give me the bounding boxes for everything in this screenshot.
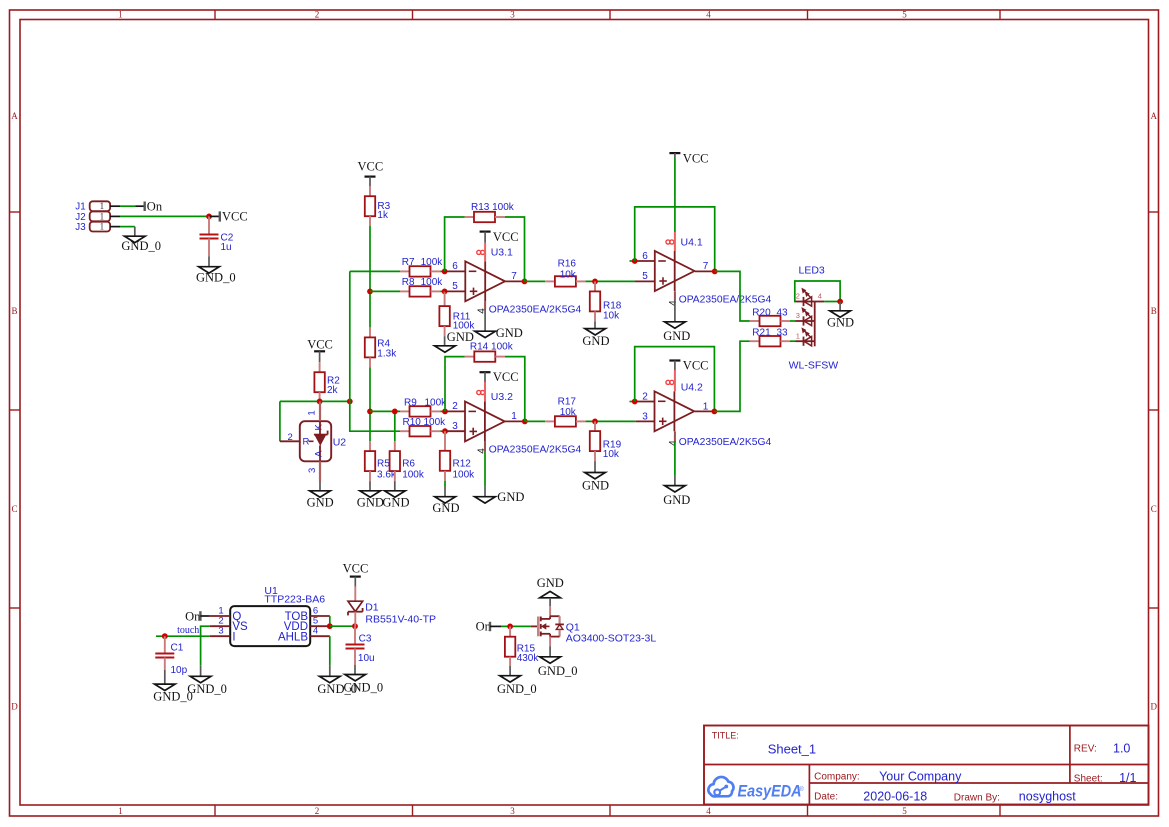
ground GND (R19) (582, 461, 609, 493)
svg-text:C: C (11, 504, 17, 514)
op-amp U4.2 (630, 380, 772, 447)
power flag VCC (U3.2) (480, 370, 519, 402)
svg-text:GND_0: GND_0 (497, 682, 537, 696)
wire R10-U3.2 (440, 430, 445, 432)
LED array LED3 (789, 265, 839, 372)
svg-text:2020-06-18: 2020-06-18 (863, 790, 927, 804)
svg-text:U4.2: U4.2 (681, 382, 703, 394)
svg-text:1u: 1u (221, 242, 232, 253)
resistor R5 (365, 441, 397, 481)
svg-text:10k: 10k (603, 311, 620, 322)
svg-text:10k: 10k (560, 269, 577, 280)
wire R20-LED3 (790, 320, 796, 322)
wire R16-U4.1 (586, 280, 635, 282)
svg-text:U4.1: U4.1 (681, 236, 703, 248)
resistor R21 (750, 328, 791, 347)
power flag VCC (U4.2) (669, 359, 708, 392)
resistor R7 (400, 257, 443, 276)
svg-text:GND: GND (497, 490, 524, 504)
svg-text:1k: 1k (377, 210, 389, 221)
junction VDD node (327, 623, 333, 629)
power flag VCC (D1) (343, 562, 369, 587)
svg-text:A: A (314, 450, 325, 457)
wire R21-LED3 (790, 340, 796, 342)
resistor R2 (314, 362, 340, 401)
svg-text:2: 2 (288, 432, 293, 443)
power flag VCC (R3) (358, 159, 384, 186)
wire J1-On (120, 205, 135, 207)
svg-text:Sheet_1: Sheet_1 (768, 742, 816, 757)
svg-text:Date:: Date: (814, 792, 838, 803)
junction R8 tap (367, 289, 373, 295)
svg-text:OPA2350EA/2K5G4: OPA2350EA/2K5G4 (489, 445, 582, 456)
svg-text:OPA2350EA/2K5G4: OPA2350EA/2K5G4 (489, 305, 582, 316)
svg-text:B: B (1151, 306, 1157, 316)
svg-text:C1: C1 (171, 642, 184, 653)
resistor R12 (440, 431, 475, 481)
capacitor C2 (200, 216, 234, 256)
ground GND (R5) (357, 481, 384, 509)
svg-text:100k: 100k (453, 470, 476, 481)
diode D1 (348, 587, 436, 627)
svg-text:VCC: VCC (493, 230, 519, 244)
net flag On (J1) (135, 200, 162, 214)
svg-text:touch: touch (177, 625, 199, 636)
wire feedback U3.1 (445, 217, 465, 271)
svg-text:GND: GND (432, 501, 459, 515)
svg-text:2k: 2k (327, 385, 339, 396)
wire R4-R5 (369, 367, 371, 441)
resistor R15 (505, 626, 539, 666)
svg-text:R20: R20 (752, 307, 771, 318)
svg-text:®: ® (799, 785, 804, 793)
svg-text:GND_0: GND_0 (344, 681, 384, 695)
svg-text:1: 1 (796, 331, 800, 340)
ground GND_0 (R15) (497, 666, 537, 696)
junction U3.1 output (522, 279, 528, 285)
svg-text:1: 1 (100, 222, 105, 232)
svg-text:GND: GND (663, 329, 690, 343)
ground GND (U4.2 pin4) (663, 431, 690, 506)
svg-text:AHLB: AHLB (278, 631, 308, 643)
ground GND_0 (U1 VS) (187, 665, 227, 696)
wire feedback U4.1 (635, 207, 715, 272)
svg-text:2: 2 (796, 292, 800, 301)
svg-text:VCC: VCC (493, 370, 519, 384)
wire to U2 pin2 (279, 401, 281, 441)
svg-text:3: 3 (796, 311, 800, 320)
junction R9 tap (367, 409, 373, 415)
svg-text:10k: 10k (603, 449, 620, 460)
ground GND (R12) (432, 481, 459, 515)
ground GND (U2) (307, 482, 334, 510)
resistor R16 (545, 259, 585, 287)
photo-IC U2 (280, 401, 346, 481)
resistor R20 (750, 307, 791, 326)
svg-text:Q1: Q1 (566, 621, 580, 633)
svg-text:VCC: VCC (683, 359, 709, 373)
power flag VCC (R2) (307, 337, 333, 362)
junction U3.1 pin6 (442, 269, 448, 275)
ground GND (U3.1 pin4) (475, 301, 523, 340)
svg-text:EasyEDA: EasyEDA (738, 781, 802, 800)
svg-text:2: 2 (452, 401, 458, 412)
junction ladder node (347, 399, 353, 405)
wire J2-VCC (120, 215, 209, 217)
svg-text:100k: 100k (402, 470, 425, 481)
EasyEDA logo (708, 777, 804, 800)
capacitor C1 (155, 636, 187, 676)
junction U3.2 output (522, 419, 528, 425)
junction R19 node (592, 419, 598, 425)
junction LED3 common (837, 299, 843, 305)
wire VDD to D1 (330, 625, 355, 627)
svg-text:5: 5 (452, 281, 458, 292)
svg-text:U2: U2 (333, 437, 347, 449)
svg-text:D1: D1 (365, 602, 379, 614)
wire VS to GND_0 (201, 626, 210, 665)
svg-text:Company:: Company: (814, 771, 860, 782)
svg-text:B: B (11, 306, 17, 316)
svg-text:1: 1 (118, 9, 123, 19)
svg-text:6: 6 (642, 251, 648, 262)
wire J3-GND_0 (120, 226, 135, 228)
resistor R11 (439, 291, 475, 336)
svg-text:GND: GND (827, 316, 854, 330)
wire node R2-bottom (280, 400, 350, 402)
svg-text:4: 4 (706, 806, 711, 816)
svg-text:R14 100k: R14 100k (470, 342, 514, 353)
svg-text:R9: R9 (404, 397, 417, 408)
svg-text:3: 3 (452, 421, 458, 432)
svg-text:R7: R7 (402, 257, 415, 268)
wire U3.2 out to R17 (525, 420, 545, 422)
wire touch net (156, 635, 210, 637)
svg-text:OPA2350EA/2K5G4: OPA2350EA/2K5G4 (679, 294, 772, 305)
ground GND_0 (C1) (153, 670, 193, 704)
resistor R13 (465, 202, 515, 222)
wire U3.1 out to R16 (525, 280, 546, 282)
resistor R8 (400, 277, 443, 296)
junction U4.2 output (712, 409, 718, 415)
wire feedback U3.2 right (505, 357, 525, 422)
svg-text:1/1: 1/1 (1119, 771, 1136, 785)
ground GND (R11) (435, 330, 474, 352)
svg-text:3: 3 (510, 9, 515, 19)
wire R8-U3.1 (440, 290, 444, 292)
wire U4.2 out to R21 (714, 341, 749, 411)
svg-text:VCC: VCC (683, 151, 709, 165)
op-amp U3.2 (445, 390, 582, 455)
junction U4.1 output (712, 269, 718, 275)
svg-text:LED3: LED3 (799, 265, 825, 277)
power flag VCC (U4.1) (669, 151, 708, 251)
svg-text:4: 4 (668, 440, 679, 446)
svg-text:WL-SFSW: WL-SFSW (789, 360, 839, 372)
svg-text:Sheet:: Sheet: (1074, 773, 1103, 784)
op-amp U3.1 (445, 247, 582, 316)
svg-text:R16: R16 (558, 259, 577, 270)
resistor R3 (365, 186, 391, 226)
svg-text:GND_0: GND_0 (196, 270, 236, 284)
svg-text:33: 33 (777, 328, 789, 339)
svg-text:K: K (314, 423, 325, 430)
svg-text:3: 3 (218, 626, 223, 637)
ground GND_0 (C3) (344, 665, 384, 695)
svg-text:1.3k: 1.3k (377, 348, 397, 359)
svg-text:3: 3 (642, 411, 648, 422)
svg-text:D: D (11, 702, 18, 712)
svg-text:2: 2 (315, 806, 320, 816)
svg-text:GND_0: GND_0 (538, 664, 578, 678)
net flag On (U1) (185, 609, 210, 623)
wire R7 left (350, 270, 400, 272)
svg-text:R13 100k: R13 100k (471, 202, 515, 213)
svg-text:D: D (1151, 702, 1158, 712)
net flag On (Q1) (476, 620, 501, 634)
ground GND_0 (J3) (121, 227, 161, 253)
wire R17-U4.2 (586, 420, 636, 422)
svg-text:4: 4 (818, 292, 822, 301)
junction R15 node (507, 624, 513, 630)
svg-text:100k: 100k (425, 397, 448, 408)
svg-text:4: 4 (706, 9, 711, 19)
svg-text:5: 5 (902, 806, 907, 816)
svg-text:On: On (147, 200, 163, 214)
transistor Q1 (531, 606, 657, 646)
svg-text:2: 2 (642, 391, 648, 402)
svg-text:VCC: VCC (343, 562, 369, 576)
wire AHLB to GND_0 (329, 636, 331, 665)
junction C1 node (162, 633, 168, 639)
junction R6 tap (392, 409, 398, 415)
ground GND (U4.1 pin4) (663, 291, 690, 343)
connector J2 (75, 211, 120, 223)
svg-text:GND_0: GND_0 (121, 239, 161, 253)
junction U4.1 pin6 (632, 258, 638, 264)
svg-text:R6: R6 (402, 458, 415, 469)
svg-text:R12: R12 (453, 458, 472, 469)
svg-text:VCC: VCC (358, 159, 384, 173)
resistor R18 (590, 281, 622, 321)
wire ladder vertical (350, 271, 400, 431)
connector J3 (75, 222, 120, 234)
svg-text:U3.2: U3.2 (491, 391, 513, 403)
svg-text:4: 4 (668, 300, 679, 306)
svg-text:Your Company: Your Company (879, 769, 962, 783)
title block (704, 726, 1149, 805)
svg-text:OPA2350EA/2K5G4: OPA2350EA/2K5G4 (679, 437, 772, 448)
junction R18 node (592, 279, 598, 285)
svg-text:VCC: VCC (307, 337, 333, 351)
wire LED3 pin2 loop (795, 281, 840, 302)
wire U4.1 out to R20 (715, 271, 750, 321)
svg-text:3: 3 (510, 806, 515, 816)
svg-text:A: A (1151, 111, 1158, 121)
ground GND_0 (C2) (196, 256, 236, 284)
svg-text:GND_0: GND_0 (187, 682, 227, 696)
svg-text:nosyghost: nosyghost (1019, 790, 1077, 804)
svg-text:10p: 10p (171, 665, 188, 676)
svg-text:6: 6 (452, 261, 458, 272)
ground GND (R6) (382, 481, 409, 509)
svg-text:1: 1 (100, 211, 105, 221)
junction VCC node (206, 214, 212, 220)
svg-text:GND: GND (382, 495, 409, 509)
wire feedback U3.1 right (505, 217, 525, 281)
svg-text:GND: GND (582, 479, 609, 493)
svg-text:Drawn By:: Drawn By: (954, 792, 1000, 803)
ground GND (R18) (582, 321, 609, 348)
svg-text:430k: 430k (517, 653, 540, 664)
svg-text:R5: R5 (377, 458, 390, 469)
junction U4.2 pin2 (632, 399, 638, 405)
junction U3.2 pin3 (442, 428, 448, 434)
wire On-Q1 gate (501, 625, 531, 627)
svg-text:U3.1: U3.1 (491, 247, 513, 259)
svg-text:GND: GND (537, 576, 564, 590)
svg-text:TTP223-BA6: TTP223-BA6 (264, 594, 325, 606)
svg-text:C3: C3 (359, 633, 372, 644)
svg-text:5: 5 (902, 9, 907, 19)
svg-text:GND: GND (496, 326, 523, 340)
svg-text:R8: R8 (402, 277, 415, 288)
svg-text:RB551V-40-TP: RB551V-40-TP (365, 613, 436, 625)
svg-text:2: 2 (315, 9, 320, 19)
IC U1 TTP223-BA6 (210, 585, 330, 646)
svg-text:GND: GND (357, 495, 384, 509)
svg-text:1: 1 (118, 806, 123, 816)
svg-text:AO3400-SOT23-3L: AO3400-SOT23-3L (566, 633, 657, 645)
svg-text:1: 1 (307, 410, 318, 415)
wire TOB down (329, 616, 331, 626)
junction D1-C3 node (352, 623, 358, 629)
svg-text:REV:: REV: (1074, 744, 1097, 755)
net flag VCC (J2) (209, 209, 248, 223)
junction R2 node (317, 399, 323, 405)
wire feedback U4.2 (635, 347, 715, 412)
resistor R4 (365, 327, 397, 367)
ground GND_0 (Q1 source) (538, 646, 578, 678)
svg-text:On: On (185, 609, 201, 623)
svg-text:R: R (303, 437, 310, 448)
wire LED3 pin4 (824, 301, 840, 303)
svg-text:VCC: VCC (222, 209, 248, 223)
svg-text:4: 4 (313, 626, 318, 637)
svg-text:10k: 10k (560, 407, 577, 418)
wire R9 tap to R6 (394, 411, 396, 441)
ground GND (Q1 drain) (537, 576, 564, 606)
resistor R17 (545, 397, 585, 427)
svg-text:GND: GND (663, 493, 690, 507)
svg-text:43: 43 (777, 307, 789, 318)
svg-text:A: A (11, 111, 18, 121)
svg-text:C: C (1151, 504, 1157, 514)
wire R7-U3.1 (440, 270, 444, 272)
ground GND (U3.2 pin4) (475, 441, 525, 504)
svg-text:TITLE:: TITLE: (712, 731, 739, 741)
svg-text:1.0: 1.0 (1113, 742, 1130, 756)
svg-text:GND: GND (582, 334, 609, 348)
svg-text:3: 3 (307, 468, 318, 473)
wire R9-U3.2 (440, 410, 445, 412)
svg-text:10u: 10u (358, 653, 375, 664)
svg-text:R21: R21 (752, 328, 771, 339)
resistor R10 (400, 417, 446, 437)
svg-text:GND: GND (307, 496, 334, 510)
capacitor C3 (346, 626, 375, 665)
svg-text:GND_0: GND_0 (153, 690, 193, 704)
ground GND_0 (AHLB) (317, 665, 357, 696)
svg-text:100k: 100k (421, 257, 444, 268)
resistor R6 (390, 441, 425, 481)
op-amp U4.1 (630, 236, 772, 305)
wire R9 left (370, 410, 400, 412)
svg-text:J3: J3 (75, 222, 86, 233)
svg-text:1: 1 (100, 201, 105, 211)
svg-text:R10: R10 (403, 417, 422, 428)
resistor R19 (590, 421, 622, 461)
wire R3-R4 (369, 226, 371, 327)
resistor R14 (465, 342, 514, 362)
junction U3.2 pin2 (442, 409, 448, 415)
junction U3.1 pin5 (442, 289, 448, 295)
svg-text:100k: 100k (421, 277, 444, 288)
svg-text:100k: 100k (424, 417, 447, 428)
ground GND (LED3) (827, 302, 854, 330)
power flag VCC (U3.1) (480, 230, 519, 261)
svg-text:I: I (232, 631, 235, 643)
resistor R9 (400, 397, 447, 416)
connector J1 (75, 201, 120, 213)
svg-text:5: 5 (642, 271, 648, 282)
wire R8 left (370, 290, 400, 292)
wire feedback U3.2 (445, 357, 465, 412)
